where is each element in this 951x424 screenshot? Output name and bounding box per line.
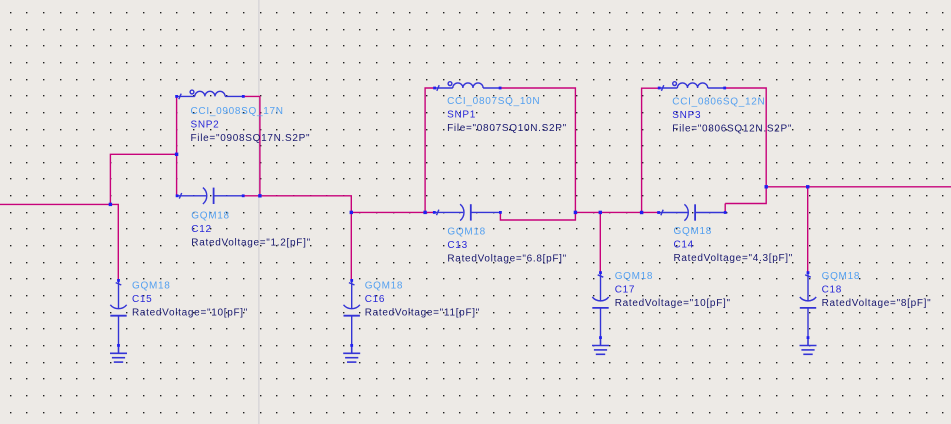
svg-text:C12: C12 — [191, 224, 211, 235]
pin 2 C15 — [117, 344, 120, 347]
pin 2 C18 — [807, 336, 810, 339]
wire C12 right to node — [243, 195, 260, 197]
node C17 tee — [599, 211, 602, 214]
inductor SNP1 symbol — [435, 82, 501, 91]
pin 2 SNP2 — [242, 95, 245, 98]
ground C18 — [800, 338, 817, 355]
svg-text:GQM18: GQM18 — [365, 280, 404, 291]
wire C14 right jog — [724, 204, 726, 213]
svg-text:RatedVoltage="4.3[pF]": RatedVoltage="4.3[pF]" — [674, 253, 794, 264]
svg-text:C17: C17 — [615, 285, 635, 296]
svg-text:C18: C18 — [822, 285, 842, 296]
pin 1 SNP1 — [433, 87, 436, 90]
svg-text:C16: C16 — [365, 294, 385, 305]
wire node3 to C16 — [350, 212, 352, 280]
svg-text:CCI_0806SQ_12N: CCI_0806SQ_12N — [672, 96, 765, 107]
pin 1 C17 — [599, 271, 602, 274]
node input branch — [109, 203, 112, 206]
pin 1 C15 — [117, 279, 120, 282]
wire SNP1 left vertical — [425, 88, 435, 212]
pin 1 C12 — [176, 194, 179, 197]
node C12 right — [258, 194, 261, 197]
ground C15 — [110, 345, 127, 362]
pin 1 C16 — [350, 279, 353, 282]
capacitor C18 symbol — [800, 273, 816, 338]
wire C13 right U-jog — [500, 212, 575, 220]
node SNP1 right tee — [574, 211, 577, 214]
svg-text:GQM18: GQM18 — [674, 226, 713, 237]
pin 2 SNP3 — [723, 87, 726, 90]
pin 1 C14 — [657, 211, 660, 214]
svg-text:RatedVoltage="8[pF]": RatedVoltage="8[pF]" — [822, 298, 932, 309]
svg-text:GQM18: GQM18 — [132, 280, 171, 291]
pin 1 SNP3 — [658, 87, 661, 90]
pin 2 C16 — [350, 344, 353, 347]
wire input net — [0, 204, 118, 280]
node SNP3 left tee — [640, 211, 643, 214]
node SNP2 left tee — [175, 153, 178, 156]
node C16 tee — [350, 211, 353, 214]
pin 1 C13 — [433, 211, 436, 214]
wire SNP1 out to SNP3 — [575, 211, 658, 213]
svg-text:SNP3: SNP3 — [672, 110, 701, 121]
pin 2 C12 — [242, 194, 245, 197]
svg-text:CCI_0908SQ_17N: CCI_0908SQ_17N — [191, 106, 284, 117]
capacitor C17 symbol — [592, 273, 608, 338]
ground C17 — [592, 338, 609, 355]
node C18 tee — [806, 185, 809, 188]
pin 2 C13 — [499, 211, 502, 214]
wire output net — [766, 186, 951, 188]
svg-text:RatedVoltage="10[pF]": RatedVoltage="10[pF]" — [132, 308, 248, 319]
svg-text:RatedVoltage="11[pF]": RatedVoltage="11[pF]" — [365, 308, 480, 319]
svg-text:C13: C13 — [447, 240, 467, 251]
node output tee — [765, 185, 768, 188]
wire SNP1 right — [500, 88, 575, 212]
svg-text:RatedVoltage="10[pF]": RatedVoltage="10[pF]" — [615, 298, 731, 309]
wire branch to SNP2 left — [110, 154, 176, 204]
pin 2 C14 — [724, 211, 727, 214]
svg-text:GQM18: GQM18 — [447, 226, 486, 237]
svg-text:GQM18: GQM18 — [822, 271, 861, 282]
wire node3 to SNP1 left node — [351, 211, 434, 213]
wire SNP2 right — [243, 96, 260, 195]
pin 1 SNP2 — [175, 95, 178, 98]
pin 1 C18 — [807, 271, 810, 274]
svg-text:SNP2: SNP2 — [191, 120, 220, 131]
wire SNP3 right — [725, 88, 767, 204]
svg-text:GQM18: GQM18 — [615, 271, 654, 282]
capacitor C13 symbol — [434, 204, 500, 220]
capacitor C14 symbol — [659, 204, 726, 220]
wire SNP3 left vertical — [642, 88, 660, 212]
svg-text:SNP1: SNP1 — [447, 110, 476, 121]
svg-text:File="0908SQ17N.S2P": File="0908SQ17N.S2P" — [191, 133, 311, 144]
capacitor C12 symbol — [177, 188, 243, 204]
svg-text:RatedVoltage="6.8[pF]": RatedVoltage="6.8[pF]" — [447, 254, 567, 265]
svg-text:C14: C14 — [674, 240, 694, 251]
svg-text:RatedVoltage="1.2[pF]": RatedVoltage="1.2[pF]" — [191, 238, 311, 249]
svg-text:File="0806SQ12N.S2P": File="0806SQ12N.S2P" — [672, 124, 792, 135]
wire node2 to node3 — [260, 196, 351, 213]
svg-text:File="0807SQ10N.S2P": File="0807SQ10N.S2P" — [447, 123, 567, 134]
capacitor C15 symbol — [110, 280, 126, 345]
svg-text:GQM18: GQM18 — [191, 210, 230, 221]
wire C17 drop — [599, 212, 601, 272]
ground C16 — [343, 345, 360, 362]
inductor SNP3 symbol — [659, 82, 725, 91]
capacitor C16 symbol — [344, 280, 360, 345]
inductor SNP2 symbol — [177, 90, 244, 99]
node SNP1 left tee — [423, 211, 426, 214]
pin 2 SNP1 — [499, 87, 502, 90]
wire SNP2 left vertical — [176, 96, 178, 195]
svg-text:CCI_0807SQ_10N: CCI_0807SQ_10N — [447, 96, 540, 107]
pin 2 C17 — [599, 336, 602, 339]
svg-text:C15: C15 — [132, 294, 152, 305]
wire C18 drop — [807, 187, 809, 273]
